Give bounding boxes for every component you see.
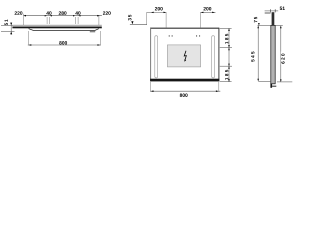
dimension 200 left line bbox=[147, 11, 167, 13]
extension lines 40 pair 1 bbox=[46, 17, 48, 24]
lightning bolt symbol bbox=[184, 51, 186, 61]
dimension 51 bottom arrow bbox=[10, 32, 12, 35]
extension line 800 front right bbox=[218, 82, 220, 92]
dimension 35 arrow bbox=[131, 21, 133, 24]
dimension text 620 (rotated) bbox=[281, 54, 284, 64]
dimension 800 front line bbox=[150, 90, 220, 92]
side view mounting section dark top bbox=[272, 12, 275, 25]
dimension 800 top view right arrow bbox=[97, 44, 100, 46]
dimension 35 vertical connector bbox=[146, 12, 148, 24]
dimension text 40 first bbox=[46, 11, 51, 14]
dimension text 75 (rotated) bbox=[254, 17, 257, 23]
right side tick at glass top bbox=[275, 25, 282, 27]
front mirror right edge bbox=[218, 28, 219, 81]
dimension text 200 right bbox=[203, 7, 211, 10]
led strip right bbox=[212, 36, 215, 78]
dimension text 620 background bbox=[281, 52, 285, 65]
front mirror bottom light bar bbox=[150, 79, 219, 82]
right chain vertical line bbox=[228, 28, 230, 81]
dimension 51 side ticks bbox=[270, 9, 272, 12]
right chain tick 3 bbox=[220, 65, 232, 67]
dimension text 200 left bbox=[155, 7, 163, 10]
electrical box bbox=[167, 45, 200, 67]
front mirror face bbox=[150, 28, 219, 82]
dimension 620 arrows bbox=[280, 26, 282, 29]
dimension 51 top tick line bbox=[1, 24, 13, 26]
top view wall section bar bbox=[12, 27, 101, 29]
mounting dot 1a bbox=[169, 35, 170, 36]
dimension 800 top view line bbox=[28, 44, 101, 46]
side view bottom tail bbox=[270, 84, 272, 88]
top chain dimension line bbox=[23, 15, 102, 17]
side view mirror body bbox=[271, 25, 275, 83]
dimension 75 top tick bbox=[265, 12, 271, 14]
extension line chain left bbox=[23, 14, 25, 25]
top view mounting rail line right bbox=[90, 31, 95, 33]
extension line 200 left inner bbox=[165, 13, 167, 28]
dimension 51 side line bbox=[265, 10, 279, 12]
dimension 51 bottom tick line bbox=[1, 31, 15, 33]
dimension 35 tick line bbox=[130, 24, 147, 26]
dimension 545 line bbox=[257, 26, 259, 82]
top chain right arrow bbox=[97, 15, 100, 17]
dimension 545 bottom tick bbox=[259, 80, 271, 82]
dimension text 800 top view bbox=[59, 41, 67, 44]
extension line 800 left bbox=[28, 31, 30, 46]
extension lines 40 pair 2 bbox=[74, 17, 76, 24]
dimension text 220 right bbox=[103, 11, 111, 14]
right chain tick 4 bbox=[220, 81, 232, 83]
mounting dot 1b bbox=[172, 35, 173, 36]
lightning bolt arrowhead bbox=[184, 59, 186, 62]
side view bottom lip bbox=[272, 85, 276, 88]
front mirror left edge bbox=[150, 28, 151, 82]
dimension text 185 lower (rotated) bbox=[225, 70, 228, 80]
dimension text 51 side bbox=[280, 7, 285, 10]
dimension text 800 front bbox=[180, 93, 188, 96]
top chain left arrow bbox=[23, 15, 26, 17]
dimension text 35 (rotated) bbox=[128, 15, 131, 21]
dimension text 545 (rotated) bbox=[251, 52, 254, 62]
dimension 51 vertical line bbox=[10, 23, 12, 35]
dimension 75 arrow bbox=[258, 23, 260, 26]
top chain 40 gap arrows pair 1 bbox=[45, 15, 47, 17]
dimension 800 front arrows bbox=[151, 90, 154, 92]
dimension 75 bottom tick bbox=[258, 25, 271, 27]
dimension 545 arrows bbox=[257, 26, 259, 29]
dimension text 40 second bbox=[75, 11, 80, 14]
dimension 200 right arrows bbox=[201, 12, 204, 14]
extension line 200 right inner bbox=[200, 13, 202, 28]
dimension text 51 top view (rotated) bbox=[5, 20, 8, 26]
top chain 40 gap arrows pair 2 bbox=[73, 15, 75, 17]
right chain tick 1 bbox=[220, 27, 232, 29]
mounting dot 2b bbox=[199, 35, 200, 36]
dimension 51 top arrow bbox=[10, 23, 12, 26]
top view front face thin line bbox=[12, 24, 101, 26]
top view mirror body outline bbox=[29, 29, 99, 31]
extension line 800 right bbox=[99, 31, 101, 46]
led strip left bbox=[155, 36, 158, 78]
dimension 200 left arrows bbox=[151, 12, 154, 14]
dimension 620 bottom tick bbox=[277, 81, 292, 83]
dimension text 220 left bbox=[15, 11, 23, 14]
dimension text 185 upper (rotated) bbox=[225, 34, 228, 44]
extension line 800 front left bbox=[150, 82, 152, 92]
dimension text 280 bbox=[59, 11, 67, 14]
dimension 200 right line bbox=[200, 11, 215, 13]
dimension 800 top view left arrow bbox=[29, 44, 32, 46]
right chain tick 2 bbox=[220, 47, 232, 49]
extension line chain right bbox=[98, 16, 100, 25]
dimension 620 line bbox=[280, 26, 282, 82]
right chain arrows bbox=[228, 28, 230, 31]
front mirror top edge bbox=[150, 28, 219, 30]
mounting dot 2a bbox=[196, 35, 197, 36]
